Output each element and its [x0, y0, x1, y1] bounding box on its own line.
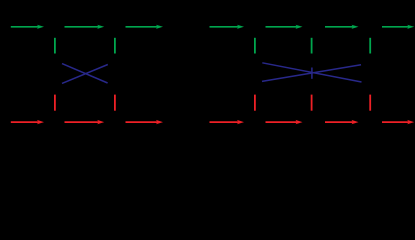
green hopping arrow t7 (top chain, rightward) [382, 25, 414, 29]
green hopping arrow t5 (top chain, rightward) [266, 25, 303, 29]
blue coupling line L1 (left X, down-right) [62, 64, 108, 83]
green hopping arrow t3 (top chain, rightward) [126, 25, 164, 29]
blue vertical tick at right X crossing [311, 68, 313, 79]
green hopping arrow t2 (top chain, rightward) [65, 25, 105, 29]
green hopping arrow t6 (top chain, rightward) [325, 25, 359, 29]
blue coupling line R2 (right X, up-right) [262, 65, 361, 82]
red hopping arrow b6 (bottom chain, rightward) [325, 120, 359, 124]
green vertical leg g5 at site x=370.2 [369, 38, 371, 54]
red hopping arrow b4 (bottom chain, rightward) [210, 120, 245, 124]
blue coupling line R1 (right X, down-right) [262, 63, 361, 82]
green hopping arrow t4 (top chain, rightward) [210, 25, 245, 29]
green vertical leg g2 at site x=114.9 [114, 38, 116, 54]
green hopping arrow t1 (top chain, rightward) [11, 25, 44, 29]
red hopping arrow b7 (bottom chain, rightward) [382, 120, 414, 124]
green vertical leg g4 at site x=311.6 [311, 38, 313, 54]
red vertical leg r5 at site x=370.2 [369, 95, 371, 111]
green vertical leg g1 at site x=54.9 [54, 38, 56, 54]
red vertical leg r3 at site x=254.9 [254, 95, 256, 111]
red hopping arrow b2 (bottom chain, rightward) [65, 120, 105, 124]
red vertical leg r2 at site x=114.9 [114, 95, 116, 111]
red hopping arrow b5 (bottom chain, rightward) [266, 120, 303, 124]
red hopping arrow b3 (bottom chain, rightward) [126, 120, 164, 124]
red vertical leg r1 at site x=54.9 [54, 95, 56, 111]
red hopping arrow b1 (bottom chain, rightward) [11, 120, 44, 124]
green vertical leg g3 at site x=254.9 [254, 38, 256, 54]
blue coupling line L2 (left X, up-right) [62, 65, 108, 84]
red vertical leg r4 at site x=311.6 [311, 95, 313, 111]
